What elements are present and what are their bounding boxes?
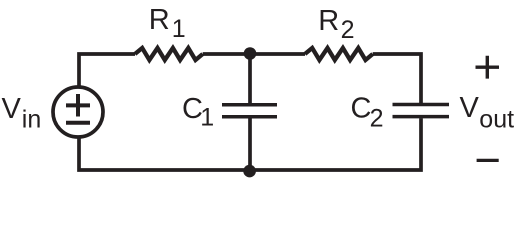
capacitor C1	[222, 105, 277, 117]
svg-text:in: in	[22, 105, 41, 133]
svg-text:V: V	[460, 92, 480, 124]
svg-text:R: R	[149, 4, 170, 36]
label C1	[182, 93, 214, 131]
wire: C2 bottom plate down and along bottom to node B	[250, 118, 421, 170]
label C2	[351, 93, 384, 133]
svg-text:2: 2	[370, 104, 384, 132]
svg-text:1: 1	[172, 15, 186, 43]
svg-text:2: 2	[341, 16, 355, 44]
svg-text:out: out	[479, 106, 514, 134]
resistor R1	[135, 48, 203, 60]
wire: source top to R1 left lead	[79, 54, 135, 87]
wire: node A to C1 top plate	[248, 54, 252, 103]
svg-text:R: R	[318, 5, 339, 37]
label Vin	[2, 93, 42, 133]
label R1	[149, 4, 186, 43]
capacitor C2	[393, 105, 450, 117]
svg-text:V: V	[2, 93, 22, 125]
node A junction dot (top)	[244, 47, 257, 60]
wire: R1 right lead to node A	[203, 52, 250, 56]
svg-text:C: C	[351, 93, 372, 125]
resistor R2	[305, 48, 373, 60]
label - (Vout polarity)	[477, 159, 499, 162]
wire: R2 right lead to top-right corner down to C2 top plate	[373, 54, 421, 103]
node B junction dot (bottom)	[243, 165, 256, 178]
svg-text:1: 1	[200, 103, 214, 131]
wire: node A to R2 left lead	[250, 52, 305, 56]
wire: C1 bottom plate to node B	[248, 118, 252, 170]
label Vout	[460, 92, 515, 134]
voltage source V1	[53, 87, 103, 137]
label R2	[318, 5, 354, 44]
wire: node B along bottom and up to source bottom	[79, 138, 250, 171]
label + (Vout polarity)	[476, 56, 500, 79]
